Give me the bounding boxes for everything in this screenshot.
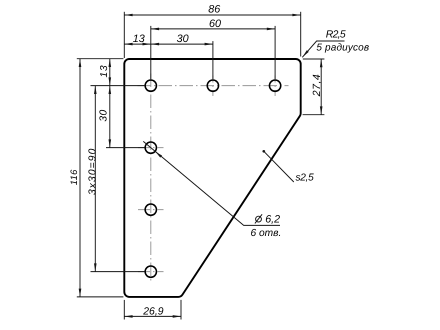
extension line top edge leftward [77, 58, 124, 60]
hole H1 [145, 80, 156, 91]
dimension 116 left [79, 59, 81, 297]
hole H5 [145, 204, 156, 215]
leader thickness s2,5 [264, 151, 294, 182]
extension line top right corner vertical [300, 12, 302, 57]
centerline hole col3 vertical [274, 76, 276, 97]
leader hole diameter [143, 141, 280, 225]
dimension 30 left vertical [109, 86, 111, 148]
svg-text:6 отв.: 6 отв. [251, 228, 282, 239]
svg-text:30: 30 [177, 33, 189, 45]
label диаметр 6,2 [256, 216, 262, 222]
extension line bottom left corner downward [123, 300, 125, 320]
centerline hole row2 [138, 147, 164, 149]
svg-text:30: 30 [98, 109, 109, 121]
dimension 13 left vertical [109, 59, 111, 86]
svg-text:s2,5: s2,5 [296, 172, 315, 183]
centerline col1 vertical [150, 74, 152, 284]
extension line bottom diagonal corner downward [180, 300, 182, 320]
dimension 60 top [151, 28, 275, 30]
dimension 86 top [124, 14, 300, 16]
dimension 26,9 bottom [124, 315, 181, 317]
extension line row2 leftward [106, 147, 145, 149]
dimension 3x30=90 left [94, 86, 96, 272]
hole H3 [269, 80, 280, 91]
hole H4 [145, 142, 156, 153]
svg-text:13: 13 [133, 33, 145, 45]
plate outline [124, 59, 300, 297]
extension line bottom edge leftward [77, 296, 124, 298]
extension line diagonal start rightward [303, 114, 325, 116]
extension line col2 vertical [212, 41, 214, 79]
svg-text:13: 13 [99, 65, 110, 78]
svg-text:3x30=90: 3x30=90 [88, 148, 99, 195]
extension line row4 leftward [91, 271, 146, 273]
svg-text:R2,5: R2,5 [326, 30, 346, 41]
leader radius R2,5 [302, 41, 344, 57]
svg-text:116: 116 [68, 169, 79, 185]
svg-text:5 радиусов: 5 радиусов [316, 42, 369, 53]
svg-text:86: 86 [208, 4, 220, 16]
extension line top left corner vertical [123, 12, 125, 58]
centerline hole row4 [138, 271, 164, 273]
centerline hole row3 [138, 209, 164, 211]
extension line row1 leftward [91, 85, 146, 87]
dimension 30 top [151, 43, 213, 45]
dimension 27,4 right [320, 59, 322, 115]
centerline hole col2 vertical [212, 76, 214, 97]
centerline row1 horizontal [138, 85, 289, 87]
svg-text:60: 60 [209, 18, 221, 30]
extension line top right corner rightward [303, 58, 325, 60]
svg-text:27,4: 27,4 [311, 74, 323, 97]
hole H6 [145, 266, 156, 277]
dimension 13 top [124, 43, 151, 45]
svg-text:6,2: 6,2 [265, 214, 280, 226]
extension line col3 vertical [274, 26, 276, 79]
svg-text:26,9: 26,9 [142, 307, 163, 318]
extension line col1 vertical [150, 26, 152, 79]
hole H2 [207, 80, 218, 91]
